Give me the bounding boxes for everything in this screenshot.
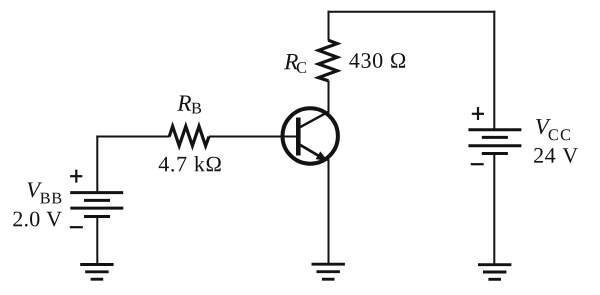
labelpath V of VCC bbox=[536, 119, 551, 134]
battery VCC plus sign bbox=[477, 107, 479, 120]
labelpath C sub of RC bbox=[297, 62, 306, 73]
wire: RC bottom lead to collector bbox=[328, 81, 330, 113]
labelpath B sub of RB bbox=[192, 103, 202, 114]
transistor Q1 emitter line bbox=[300, 145, 325, 160]
wire: emitter lead vertical bbox=[328, 159, 330, 264]
ground symbol left bar 3 bbox=[91, 278, 104, 281]
wire: VCC top lead vertical bbox=[493, 11, 495, 129]
labelpath 4.7 kOhm bbox=[159, 156, 221, 172]
ground symbol center bar 1 bbox=[312, 263, 345, 266]
ground symbol right bar 1 bbox=[478, 263, 511, 266]
resistor RB zigzag bbox=[169, 126, 209, 146]
ground symbol right bar 2 bbox=[483, 271, 506, 274]
battery VCC plate 1 long (+) bbox=[468, 128, 521, 131]
battery VCC plate 4 short (-) bbox=[482, 152, 508, 155]
labelpath BB sub of VBB bbox=[40, 193, 61, 204]
battery VBB minus sign bbox=[70, 226, 83, 228]
battery VCC plate 2 short bbox=[482, 136, 508, 139]
battery VBB plus sign bbox=[75, 170, 77, 183]
wire: VBB to RB horizontal bbox=[96, 136, 169, 138]
labelpath V of VBB bbox=[27, 182, 42, 197]
transistor Q1 base bar bbox=[296, 118, 301, 156]
battery VCC minus sign bbox=[471, 163, 484, 165]
wire: RC top lead vertical bbox=[328, 11, 330, 41]
ground symbol left bar 2 bbox=[85, 270, 108, 273]
ground symbol left bar 1 bbox=[80, 263, 113, 266]
labelpath 2.0 V bbox=[13, 212, 61, 227]
battery VBB plate 4 short (-) bbox=[84, 215, 110, 218]
transistor Q1 emitter arrowhead bbox=[317, 152, 327, 160]
labelpath R of RC bbox=[284, 54, 298, 69]
wire: VBB bottom lead vertical bbox=[96, 217, 98, 265]
transistor Q1 circle bbox=[283, 108, 338, 163]
wire: top rail horizontal bbox=[328, 11, 496, 13]
battery VCC plate 3 long bbox=[468, 144, 521, 147]
battery VBB plate 3 long bbox=[70, 207, 123, 210]
battery VBB plate 1 long (+) bbox=[70, 191, 123, 194]
ground symbol right bar 3 bbox=[488, 278, 501, 281]
ground symbol center bar 3 bbox=[322, 278, 335, 281]
battery VBB plate 2 short bbox=[84, 199, 110, 202]
transistor Q1 collector line bbox=[300, 111, 329, 127]
labelpath R of RB bbox=[177, 96, 191, 111]
resistor RC zigzag bbox=[319, 40, 338, 81]
wire: VCC bottom lead vertical bbox=[493, 154, 495, 265]
labelpath CC sub of VCC bbox=[549, 129, 570, 140]
ground symbol center bar 2 bbox=[317, 270, 340, 273]
wire: VBB top lead vertical bbox=[96, 136, 98, 193]
labelpath 430 Ohm bbox=[349, 53, 405, 68]
wire: base wire from RB to transistor bbox=[209, 136, 297, 138]
labelpath 24 V bbox=[534, 148, 578, 163]
